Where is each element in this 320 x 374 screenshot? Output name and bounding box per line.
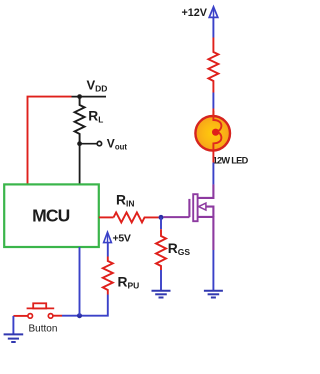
resistor RGS (156, 229, 166, 270)
svg-text:MCU: MCU (32, 206, 70, 226)
svg-text:12W LED: 12W LED (213, 155, 249, 165)
wire MCU input blue (79, 247, 81, 316)
node VDD junction (77, 94, 82, 99)
wire MCU top pin black (79, 144, 81, 185)
svg-text:Button: Button (29, 323, 58, 334)
ground (RGS) (152, 291, 171, 298)
resistor RIN (114, 212, 159, 222)
wire +12V blue (212, 17, 214, 37)
wire RPU to button rail blue (62, 295, 108, 316)
svg-text:RL: RL (88, 108, 103, 124)
wire LED anode red (212, 109, 214, 117)
ground (source) (204, 291, 223, 298)
wire source blue to ground (212, 250, 214, 290)
wire MCU output red (99, 216, 114, 218)
wire mid blue segment (212, 93, 214, 109)
wire LED cathode red (212, 150, 214, 163)
power +5V arrow (104, 232, 112, 242)
MCU U1 box (4, 184, 99, 247)
svg-text:Vout: Vout (107, 137, 128, 152)
transistor Q1 N-MOSFET (189, 184, 213, 250)
svg-text:RGS: RGS (168, 241, 191, 257)
wire VDD rail black (72, 96, 107, 98)
wire Vout stub black (80, 143, 97, 145)
svg-text:+12V: +12V (181, 7, 207, 19)
switch S1 pushbutton (27, 303, 55, 318)
resistor RL (75, 97, 85, 144)
wire RGS bottom blue (160, 270, 162, 290)
wire button ground blue (12, 316, 14, 334)
svg-text:RIN: RIN (116, 193, 134, 209)
node gate junction (159, 215, 164, 220)
svg-text:+5V: +5V (113, 232, 131, 244)
resistor RPU (103, 257, 113, 295)
wire button to rail red (53, 315, 62, 317)
node button rail junction (77, 313, 82, 318)
wire drain blue (212, 163, 214, 185)
terminal Vout open circle (97, 141, 101, 145)
svg-text:VDD: VDD (87, 78, 108, 94)
wire +5V blue (107, 243, 109, 257)
wire button left red (13, 315, 28, 317)
wire RGS top blue (160, 217, 162, 229)
wire VDD red feed to MCU top-left pin (28, 97, 72, 185)
resistor R (12V series) (208, 38, 218, 93)
lamp 12W LED (195, 111, 230, 151)
svg-text:RPU: RPU (118, 274, 140, 290)
wire gate purple (163, 216, 189, 218)
power +12V arrow (209, 7, 218, 18)
node Vout junction (77, 141, 82, 146)
ground (button) (4, 334, 24, 342)
